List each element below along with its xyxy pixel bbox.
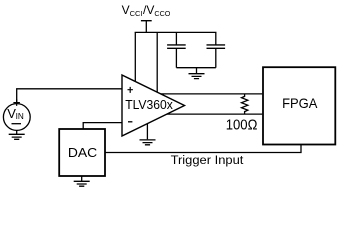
svg-text:100Ω: 100Ω bbox=[226, 118, 258, 134]
svg-text:Trigger Input: Trigger Input bbox=[171, 153, 244, 167]
svg-text:FPGA: FPGA bbox=[282, 96, 318, 111]
svg-text:DAC: DAC bbox=[68, 145, 97, 160]
svg-text:TLV360x: TLV360x bbox=[125, 97, 173, 112]
